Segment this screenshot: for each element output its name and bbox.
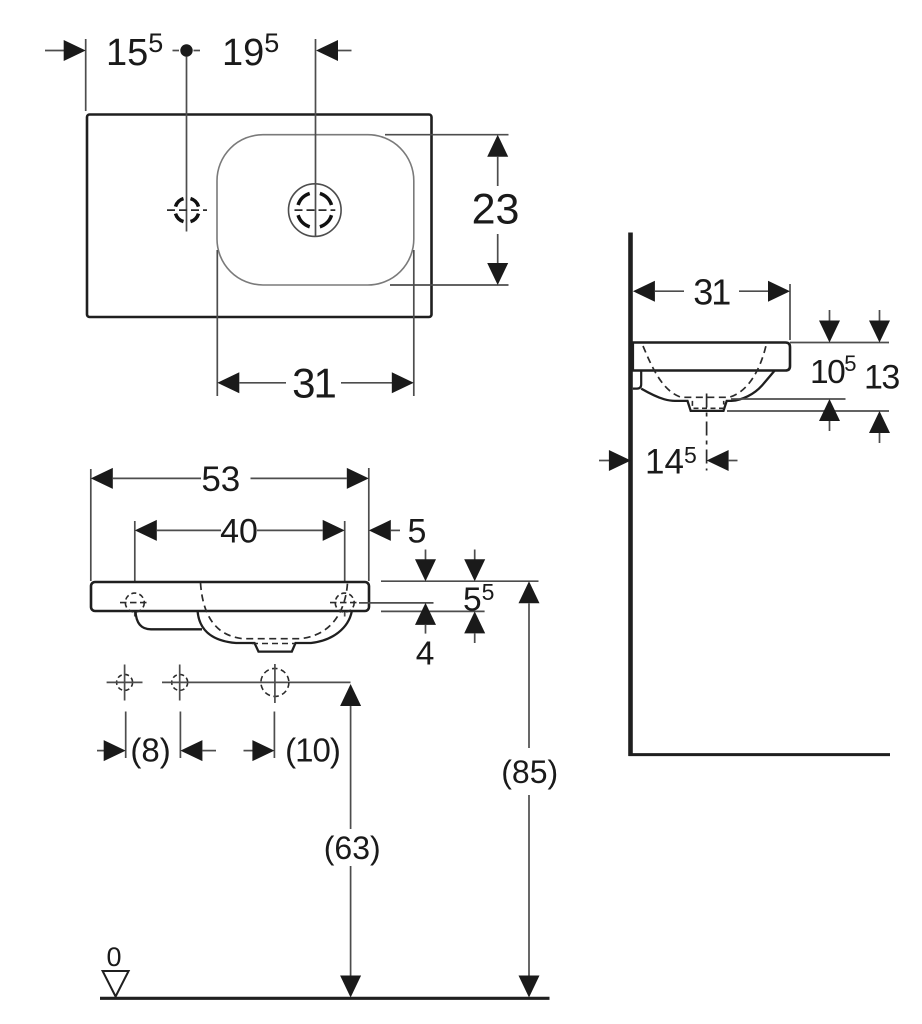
- svg-text:31: 31: [292, 360, 335, 407]
- svg-text:(63): (63): [324, 830, 381, 866]
- svg-text:40: 40: [220, 513, 258, 551]
- svg-text:53: 53: [201, 460, 240, 499]
- svg-text:(10): (10): [285, 732, 340, 769]
- svg-text:23: 23: [472, 186, 520, 234]
- svg-text:0: 0: [106, 942, 121, 972]
- svg-text:13: 13: [864, 359, 899, 397]
- svg-text:(85): (85): [501, 754, 558, 790]
- svg-text:31: 31: [693, 272, 730, 313]
- svg-text:4: 4: [416, 636, 435, 673]
- svg-text:5: 5: [407, 512, 426, 550]
- svg-text:(8): (8): [130, 732, 170, 769]
